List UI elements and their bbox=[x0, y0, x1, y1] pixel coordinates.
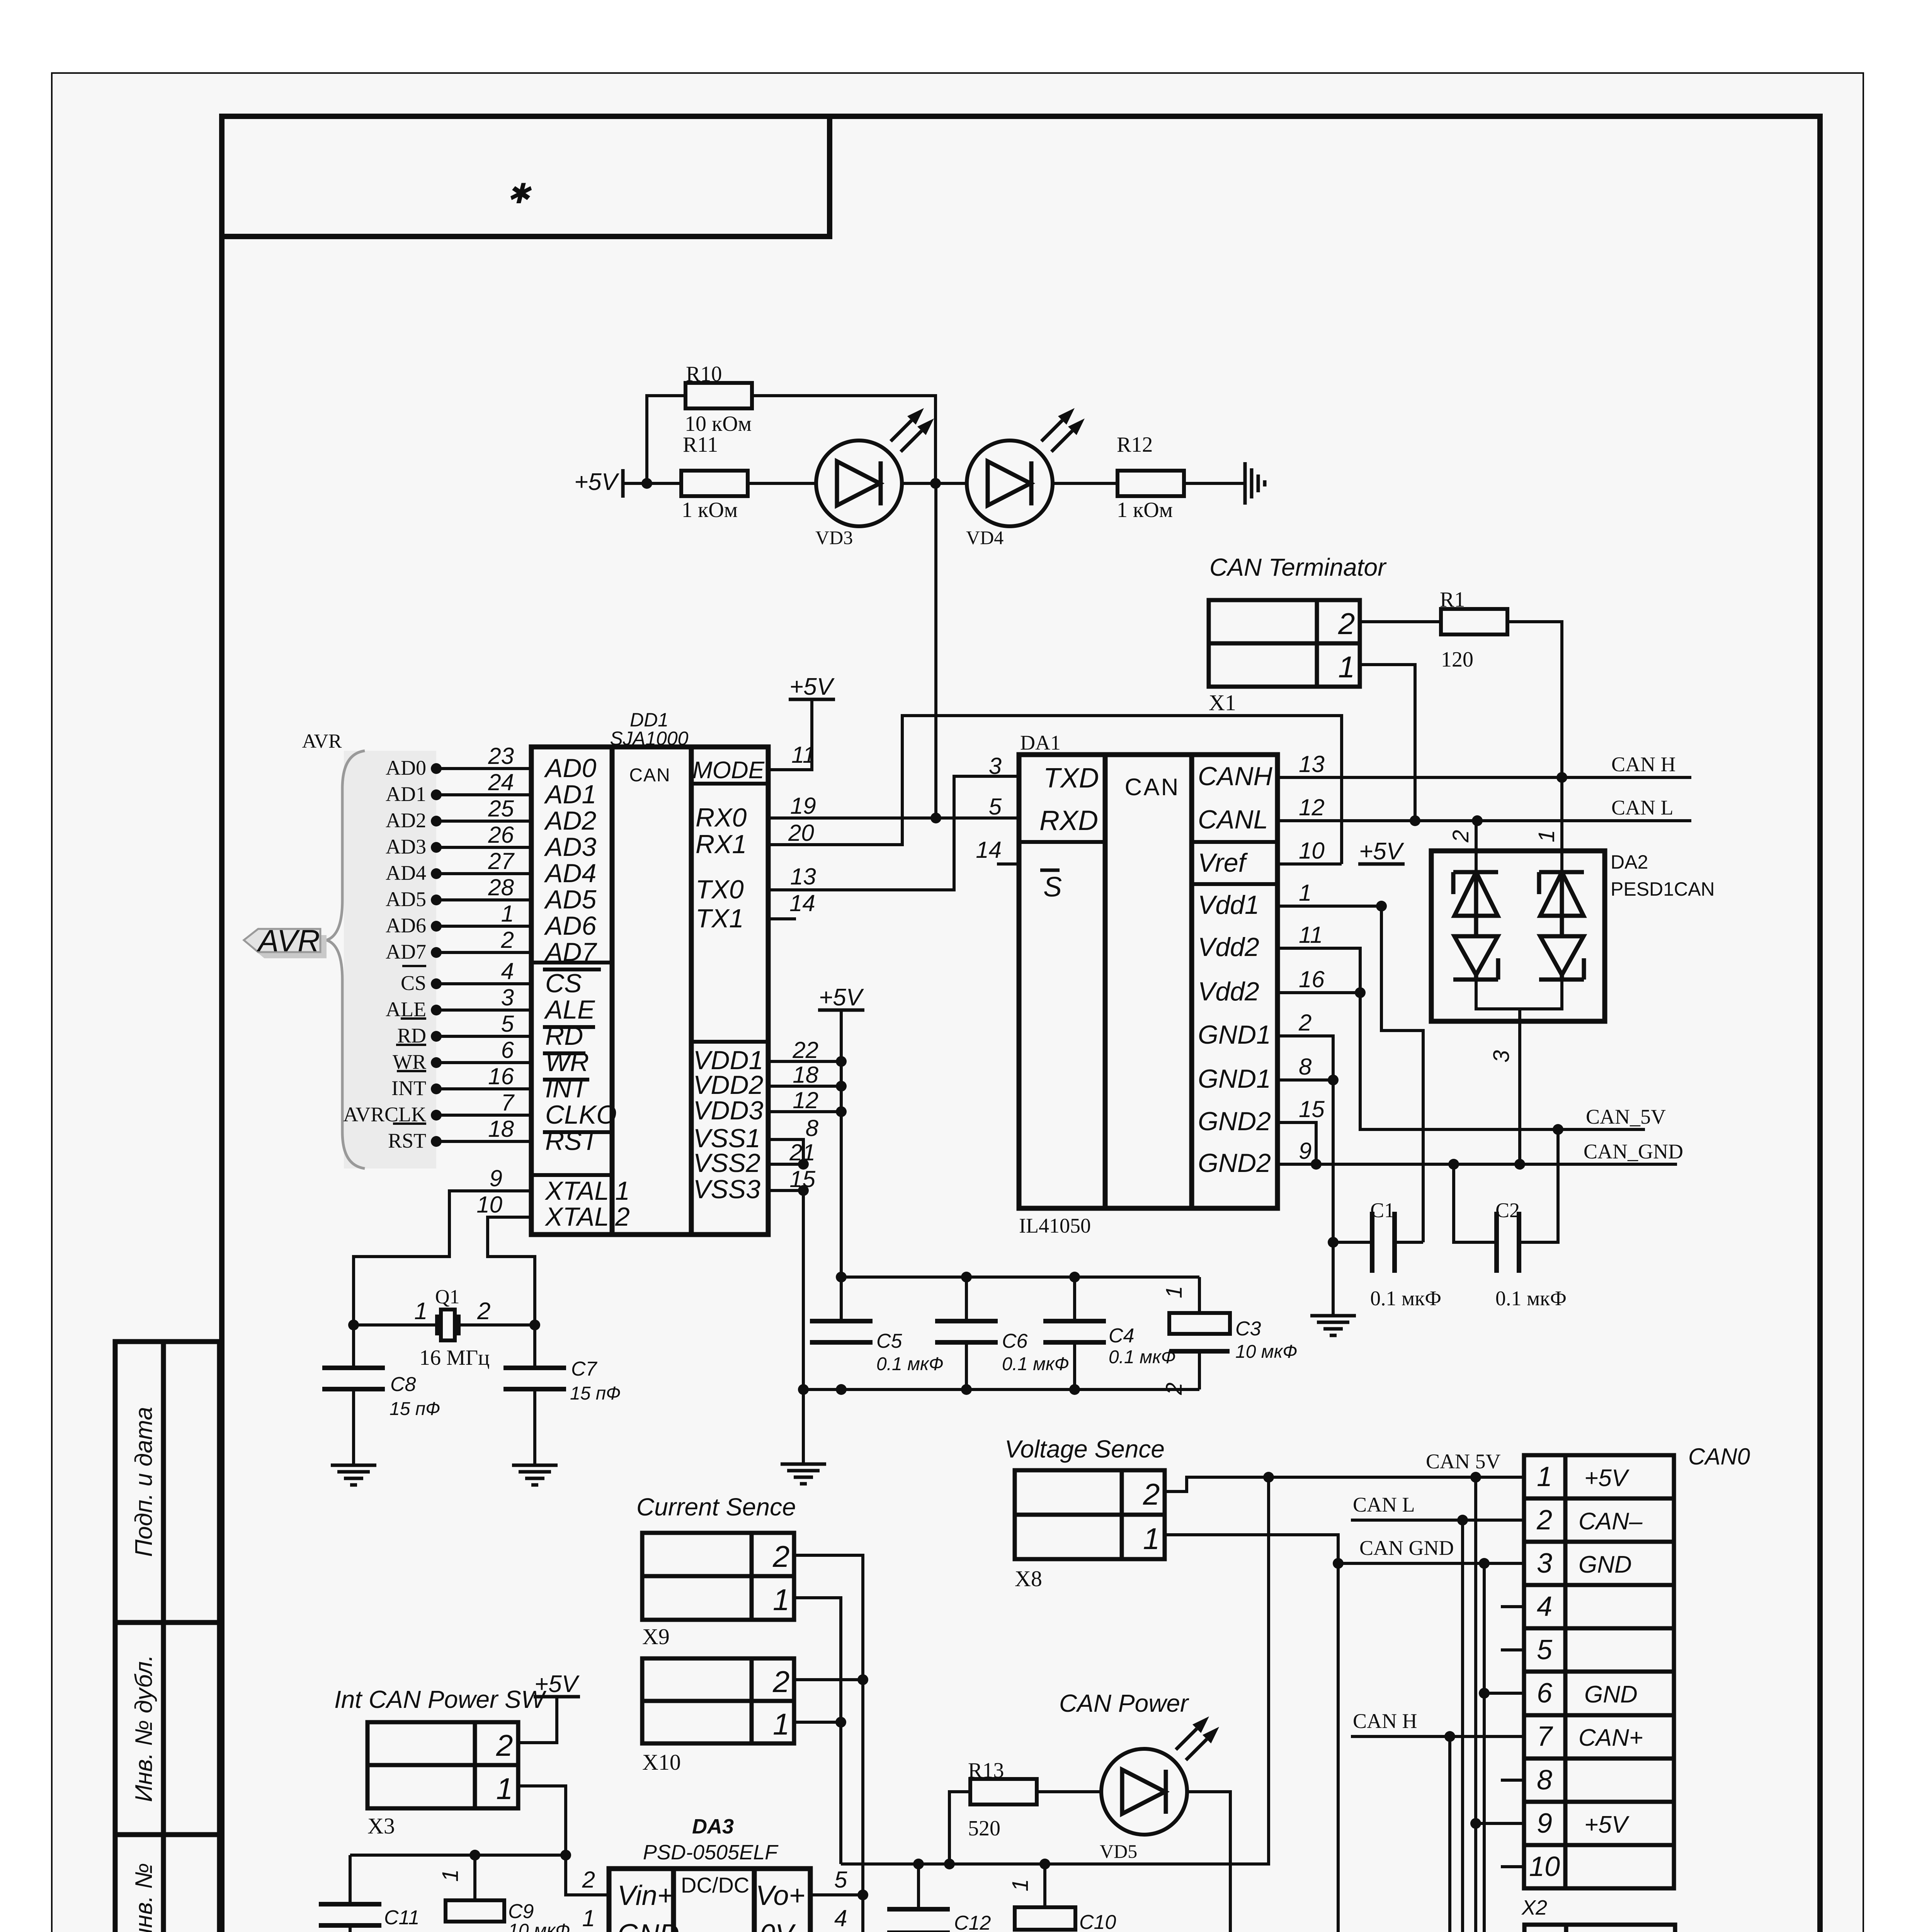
svg-text:2: 2 bbox=[772, 1539, 789, 1573]
wire Vdd1 to +5V bbox=[1277, 905, 1381, 908]
svg-text:CAN0: CAN0 bbox=[1688, 1444, 1750, 1469]
svg-text:1: 1 bbox=[1338, 650, 1355, 684]
svg-text:DA2: DA2 bbox=[1611, 851, 1648, 873]
stub S pin bbox=[997, 862, 1019, 866]
svg-text:AD2: AD2 bbox=[544, 806, 596, 835]
wire VSS rail down to ground bus bbox=[802, 1190, 805, 1464]
wire CANL to CAN_L line bbox=[1277, 819, 1691, 822]
wire VSS2 bbox=[768, 1163, 803, 1166]
wire +5V down to C1 bbox=[1381, 906, 1423, 1242]
svg-text:8: 8 bbox=[1537, 1765, 1552, 1796]
svg-text:1: 1 bbox=[773, 1707, 789, 1741]
wire VSS3 bbox=[768, 1189, 803, 1192]
AVR flag bbox=[250, 935, 327, 958]
wire X10 pin1 bbox=[794, 1721, 841, 1724]
resistor R12 bbox=[1118, 471, 1184, 496]
svg-text:AVR: AVR bbox=[257, 923, 320, 958]
wire X2 pin6 GND bbox=[1484, 1563, 1524, 1693]
wire CAN_GND down to rail bbox=[1337, 1563, 1340, 1932]
svg-text:10: 10 bbox=[1529, 1851, 1560, 1882]
svg-text:2: 2 bbox=[1338, 607, 1355, 641]
wire CAN_H to X2 pin7 bbox=[1351, 1735, 1524, 1738]
svg-text:RST: RST bbox=[545, 1126, 599, 1156]
wire CAN_GND branch to X4 pin3 and 6 bbox=[1484, 1693, 1524, 1932]
wire R13 riser bbox=[949, 1792, 970, 1864]
capacitor C10 polarized bbox=[1043, 1864, 1046, 1907]
svg-text:X1: X1 bbox=[1209, 690, 1236, 715]
wire X8 pin2 to CAN_5V bbox=[1165, 1477, 1524, 1492]
svg-text:TXD: TXD bbox=[1043, 763, 1099, 794]
svg-text:AD1: AD1 bbox=[386, 782, 426, 806]
svg-text:5: 5 bbox=[501, 1011, 514, 1037]
svg-text:2: 2 bbox=[615, 1202, 630, 1231]
capacitor C12 bbox=[917, 1864, 920, 1909]
wire AVRCLK to DD1 bbox=[436, 1114, 531, 1117]
svg-text:1 кОм: 1 кОм bbox=[1117, 498, 1173, 522]
svg-text:C6: C6 bbox=[1002, 1330, 1028, 1352]
wire AD0 to DD1 bbox=[436, 767, 531, 770]
connector X1 bbox=[1209, 600, 1360, 687]
svg-text:AD4: AD4 bbox=[544, 859, 596, 888]
wire MODE to +5V bbox=[768, 699, 812, 770]
wire RX0 to RXD bbox=[768, 816, 1019, 820]
wire Vin top bus bbox=[350, 1854, 566, 1857]
svg-text:AD3: AD3 bbox=[544, 832, 596, 862]
wire ALE to DD1 bbox=[436, 1009, 531, 1012]
svg-text:TX0: TX0 bbox=[696, 875, 744, 904]
svg-text:AD1: AD1 bbox=[544, 780, 596, 809]
capacitor C5 bbox=[810, 1319, 873, 1323]
svg-text:Vdd1: Vdd1 bbox=[1198, 890, 1259, 920]
wire CAN_GND to X2 pin3 bbox=[1338, 1562, 1524, 1565]
wire INT to DD1 bbox=[436, 1087, 531, 1090]
svg-text:R1: R1 bbox=[1440, 588, 1465, 612]
svg-text:12: 12 bbox=[793, 1087, 818, 1113]
svg-text:23: 23 bbox=[488, 743, 514, 769]
svg-text:CANL: CANL bbox=[1198, 805, 1268, 834]
wire Vo+ pin5 bbox=[810, 1893, 863, 1896]
svg-text:MODE: MODE bbox=[692, 757, 765, 784]
svg-text:C11: C11 bbox=[384, 1906, 420, 1929]
svg-text:VD3: VD3 bbox=[815, 527, 853, 548]
svg-text:20: 20 bbox=[788, 820, 814, 846]
svg-text:DC/DC: DC/DC bbox=[681, 1873, 749, 1897]
svg-text:120: 120 bbox=[1441, 648, 1473, 672]
svg-text:✱: ✱ bbox=[507, 179, 532, 209]
svg-text:Инв. № дубл.: Инв. № дубл. bbox=[131, 1655, 157, 1802]
connector X4 box bbox=[1524, 1925, 1675, 1932]
connector X10 bbox=[642, 1658, 794, 1743]
svg-text:AD5: AD5 bbox=[544, 885, 596, 914]
svg-text:10 мкФ: 10 мкФ bbox=[1235, 1342, 1297, 1362]
wire +5V rail down to cap bus bbox=[840, 1010, 843, 1321]
LED VD3 bbox=[816, 440, 902, 526]
svg-text:19: 19 bbox=[790, 793, 816, 819]
svg-text:4: 4 bbox=[834, 1905, 847, 1931]
svg-text:X9: X9 bbox=[642, 1624, 670, 1649]
connector X9 bbox=[642, 1533, 794, 1620]
svg-text:C5: C5 bbox=[876, 1330, 903, 1352]
svg-text:R13: R13 bbox=[968, 1759, 1004, 1782]
svg-text:0.1 мкФ: 0.1 мкФ bbox=[876, 1354, 944, 1374]
svg-text:PESD1CAN: PESD1CAN bbox=[1611, 878, 1715, 900]
svg-text:PSD-0505ELF: PSD-0505ELF bbox=[643, 1841, 779, 1864]
wire TXD stub bbox=[954, 775, 1019, 778]
wire R1 to CAN_H bbox=[1507, 622, 1562, 851]
svg-text:2: 2 bbox=[1298, 1010, 1311, 1036]
wire VSS cap bus bbox=[803, 1388, 1199, 1391]
svg-text:CAN Terminator: CAN Terminator bbox=[1209, 553, 1387, 581]
svg-text:3: 3 bbox=[1537, 1548, 1552, 1579]
LED VD4 bbox=[967, 440, 1053, 526]
svg-text:WR: WR bbox=[545, 1048, 589, 1077]
top stamp box bbox=[222, 116, 830, 236]
wire VDD3 bbox=[768, 1110, 841, 1113]
svg-text:26: 26 bbox=[488, 822, 514, 848]
svg-text:1: 1 bbox=[773, 1583, 789, 1617]
svg-text:VD4: VD4 bbox=[966, 527, 1004, 548]
capacitor C2 bbox=[1454, 1164, 1497, 1242]
svg-text:C1: C1 bbox=[1370, 1199, 1395, 1222]
wire WR to DD1 bbox=[436, 1061, 531, 1064]
wire Vo+ vertical to X7 pin1 bbox=[861, 1895, 864, 1932]
svg-text:2: 2 bbox=[1143, 1477, 1160, 1511]
wire X9 pin2 down bbox=[794, 1555, 863, 1895]
svg-text:4: 4 bbox=[1537, 1591, 1552, 1622]
wire VD5 to rail bbox=[1187, 1792, 1230, 1932]
svg-text:Vdd2: Vdd2 bbox=[1198, 977, 1259, 1006]
svg-text:9: 9 bbox=[490, 1165, 502, 1191]
svg-text:CAN GND: CAN GND bbox=[1359, 1536, 1454, 1560]
svg-text:28: 28 bbox=[488, 874, 514, 900]
wire CANH to CAN_H line bbox=[1277, 776, 1691, 779]
svg-text:2: 2 bbox=[772, 1665, 789, 1699]
wire RD to DD1 bbox=[436, 1035, 531, 1038]
svg-text:GND1: GND1 bbox=[1198, 1020, 1271, 1049]
svg-text:CAN–: CAN– bbox=[1579, 1508, 1643, 1535]
svg-text:Vin+: Vin+ bbox=[617, 1880, 674, 1911]
svg-text:CAN L: CAN L bbox=[1611, 796, 1674, 819]
svg-text:AD7: AD7 bbox=[544, 937, 597, 967]
wire R13 to VD5 bbox=[1037, 1790, 1101, 1793]
svg-text:0.1 мкФ: 0.1 мкФ bbox=[384, 1930, 451, 1932]
svg-text:ALE: ALE bbox=[544, 995, 595, 1024]
power +5V at X3 bbox=[534, 1695, 580, 1699]
svg-text:12: 12 bbox=[1299, 794, 1325, 820]
svg-text:C2: C2 bbox=[1495, 1199, 1520, 1222]
svg-text:1: 1 bbox=[1538, 1930, 1553, 1932]
power +5V at MODE bbox=[789, 698, 835, 701]
wire R10 branch up bbox=[647, 396, 687, 483]
svg-text:RD: RD bbox=[545, 1021, 583, 1051]
wire AD2 to DD1 bbox=[436, 820, 531, 823]
svg-text:AD3: AD3 bbox=[386, 835, 426, 858]
svg-text:AVR: AVR bbox=[302, 730, 342, 752]
svg-text:VSS3: VSS3 bbox=[693, 1175, 760, 1204]
drawing frame bbox=[222, 116, 1820, 1932]
AVR gray band bbox=[344, 751, 436, 1168]
svg-text:8: 8 bbox=[806, 1115, 819, 1141]
svg-text:0.1 мкФ: 0.1 мкФ bbox=[1109, 1347, 1176, 1367]
svg-text:Vo+: Vo+ bbox=[756, 1880, 805, 1911]
power +5V above VDD pins bbox=[818, 1009, 864, 1012]
svg-text:6: 6 bbox=[1537, 1678, 1553, 1709]
svg-text:8: 8 bbox=[1299, 1054, 1312, 1080]
svg-text:C12: C12 bbox=[954, 1912, 991, 1932]
wire Vdd2 net to CAN_5V bbox=[1277, 948, 1645, 1129]
svg-text:1: 1 bbox=[1143, 1522, 1160, 1556]
wire Vdd2 pin16 join bbox=[1277, 991, 1360, 994]
AVR brace bbox=[327, 751, 365, 1168]
wire AD5 to DD1 bbox=[436, 898, 531, 901]
svg-text:1: 1 bbox=[1299, 880, 1311, 906]
svg-text:VDD3: VDD3 bbox=[693, 1096, 764, 1125]
wire RX1 to Vref net bbox=[768, 716, 1342, 864]
resistor R13 bbox=[970, 1779, 1037, 1804]
svg-text:3: 3 bbox=[501, 985, 514, 1010]
wire CAN_L to X2 pin2 bbox=[1351, 1519, 1524, 1522]
svg-text:Подп. и дата: Подп. и дата bbox=[131, 1407, 157, 1557]
svg-text:2: 2 bbox=[582, 1867, 595, 1893]
svg-text:CAN Power: CAN Power bbox=[1059, 1689, 1189, 1717]
svg-text:CS: CS bbox=[545, 969, 582, 998]
svg-text:CAN_GND: CAN_GND bbox=[1584, 1140, 1683, 1163]
svg-text:1 кОм: 1 кОм bbox=[682, 498, 738, 522]
wire +5V to R11 bbox=[623, 482, 682, 485]
IC DA3 box bbox=[609, 1869, 810, 1932]
svg-text:+5V: +5V bbox=[1584, 1465, 1630, 1492]
svg-text:DA3: DA3 bbox=[692, 1815, 734, 1838]
connector X8 bbox=[1015, 1470, 1165, 1559]
svg-text:+5V: +5V bbox=[789, 673, 835, 700]
svg-text:3: 3 bbox=[1489, 1050, 1514, 1063]
IC DD1 box bbox=[531, 747, 768, 1235]
svg-text:0.1 мкФ: 0.1 мкФ bbox=[1495, 1287, 1567, 1310]
svg-text:TX1: TX1 bbox=[696, 904, 744, 933]
svg-text:INT: INT bbox=[545, 1074, 589, 1103]
svg-text:2: 2 bbox=[1162, 1383, 1187, 1395]
svg-text:24: 24 bbox=[488, 769, 514, 795]
capacitor C1 bbox=[1333, 1241, 1372, 1244]
svg-text:C9: C9 bbox=[508, 1900, 534, 1923]
svg-text:+5V: +5V bbox=[819, 984, 864, 1011]
svg-text:Взам. инв. №: Взам. инв. № bbox=[131, 1863, 157, 1932]
svg-text:2: 2 bbox=[501, 927, 514, 953]
svg-text:AD0: AD0 bbox=[544, 753, 596, 783]
wire XTAL1 pin 9 bbox=[354, 1191, 531, 1325]
capacitor C4 bbox=[1073, 1277, 1076, 1321]
svg-text:1: 1 bbox=[414, 1298, 427, 1325]
wire X9 pin1 down bbox=[794, 1598, 841, 1864]
connector X2 box bbox=[1524, 1455, 1674, 1888]
svg-text:13: 13 bbox=[790, 864, 816, 889]
power +5V at Vdd1 bbox=[1358, 862, 1405, 866]
svg-text:RX1: RX1 bbox=[696, 830, 747, 859]
ground for GND1 bbox=[1310, 1314, 1356, 1318]
svg-text:AD6: AD6 bbox=[386, 914, 426, 937]
svg-text:Q1: Q1 bbox=[435, 1286, 460, 1308]
wire TX0 to TXD bbox=[768, 776, 1019, 890]
svg-text:CAN H: CAN H bbox=[1611, 753, 1676, 776]
TVS pair left bbox=[1453, 870, 1498, 874]
wire X10 pin2 bbox=[794, 1678, 863, 1681]
svg-text:GND2: GND2 bbox=[1198, 1107, 1271, 1136]
wire X2 pin9 +5V bbox=[1476, 1477, 1524, 1823]
svg-text:0.1 мкФ: 0.1 мкФ bbox=[1002, 1354, 1069, 1374]
svg-text:10: 10 bbox=[476, 1192, 502, 1218]
wire AD7 to DD1 bbox=[436, 951, 531, 954]
wire GND2 to CAN_GND line bbox=[1277, 1163, 1677, 1166]
wire +5V cap bus bbox=[841, 1276, 1199, 1279]
svg-text:6: 6 bbox=[501, 1037, 514, 1063]
svg-text:VDD2: VDD2 bbox=[693, 1070, 763, 1100]
IC DA1 box bbox=[1019, 755, 1277, 1208]
svg-text:CAN_5V: CAN_5V bbox=[1586, 1105, 1666, 1128]
svg-text:7: 7 bbox=[501, 1090, 515, 1116]
svg-text:+5V: +5V bbox=[574, 469, 620, 495]
svg-text:R11: R11 bbox=[683, 433, 718, 457]
svg-text:X8: X8 bbox=[1015, 1566, 1042, 1591]
svg-text:AD2: AD2 bbox=[386, 809, 426, 832]
svg-text:CS: CS bbox=[401, 971, 426, 995]
left attribute column box bbox=[115, 1342, 219, 1932]
wire VSS1 bbox=[768, 1139, 803, 1164]
wire AD6 to DD1 bbox=[436, 925, 531, 928]
wire GND1 net down bbox=[1277, 1036, 1333, 1316]
svg-text:1: 1 bbox=[615, 1176, 630, 1206]
svg-text:16: 16 bbox=[1299, 966, 1325, 992]
svg-text:Current Sence: Current Sence bbox=[636, 1493, 796, 1521]
svg-text:RXD: RXD bbox=[1039, 805, 1098, 836]
svg-text:XTAL: XTAL bbox=[544, 1202, 609, 1231]
svg-text:16: 16 bbox=[488, 1063, 514, 1089]
svg-text:14: 14 bbox=[976, 837, 1002, 863]
svg-text:Int CAN Power SW: Int CAN Power SW bbox=[334, 1685, 547, 1713]
svg-text:10 мкФ: 10 мкФ bbox=[508, 1920, 570, 1932]
svg-text:5: 5 bbox=[989, 794, 1002, 820]
svg-text:X2: X2 bbox=[1521, 1896, 1547, 1919]
wire CAN_5V down to X4 pins bbox=[1476, 1823, 1524, 1932]
svg-text:CLKO: CLKO bbox=[545, 1100, 617, 1129]
wire R12 to chassis ground bbox=[1184, 482, 1245, 485]
wire X3 pin2 to +5V bbox=[518, 1697, 557, 1743]
wire R10 to junction bbox=[752, 396, 936, 483]
svg-text:11: 11 bbox=[1299, 922, 1323, 948]
svg-text:GND: GND bbox=[617, 1919, 679, 1932]
capacitor C7 bbox=[533, 1325, 536, 1368]
wire VD4 to R12 bbox=[1053, 482, 1118, 485]
capacitor C6 bbox=[965, 1277, 968, 1321]
svg-text:C3: C3 bbox=[1235, 1318, 1261, 1340]
svg-text:1: 1 bbox=[1162, 1286, 1187, 1298]
svg-text:RST: RST bbox=[388, 1129, 426, 1152]
svg-text:18: 18 bbox=[488, 1116, 514, 1142]
svg-text:GND: GND bbox=[1584, 1681, 1638, 1708]
svg-text:1: 1 bbox=[438, 1869, 463, 1882]
wire GND1 pin8 bbox=[1277, 1078, 1333, 1082]
svg-text:13: 13 bbox=[1299, 751, 1325, 777]
LED VD5 bbox=[1101, 1749, 1187, 1835]
wire XTAL2 pin 10 bbox=[488, 1217, 535, 1325]
svg-text:R10: R10 bbox=[686, 362, 722, 386]
svg-text:CAN: CAN bbox=[629, 765, 670, 786]
svg-text:14: 14 bbox=[789, 890, 815, 916]
capacitor C8 bbox=[352, 1325, 355, 1368]
wire X8 pin1 to CAN_GND bbox=[1165, 1535, 1338, 1563]
svg-text:AD4: AD4 bbox=[386, 861, 426, 884]
svg-text:IL41050: IL41050 bbox=[1019, 1214, 1091, 1237]
svg-text:+5V: +5V bbox=[1584, 1811, 1630, 1838]
wire R11 to VD3 bbox=[747, 482, 816, 485]
wire DA2 pin1 from CAN_H bbox=[1560, 777, 1563, 872]
svg-text:7: 7 bbox=[1537, 1721, 1553, 1752]
TVS pair right bbox=[1539, 870, 1584, 874]
wire current sense bus to CAN_5V bbox=[841, 1477, 1269, 1864]
svg-text:2: 2 bbox=[1448, 830, 1473, 843]
resistor R10 bbox=[685, 383, 752, 408]
svg-text:10 кОм: 10 кОм bbox=[685, 412, 752, 436]
capacitor C11 bbox=[349, 1855, 352, 1904]
svg-text:0V: 0V bbox=[760, 1919, 796, 1932]
svg-text:XTAL: XTAL bbox=[544, 1176, 609, 1206]
svg-text:1: 1 bbox=[1537, 1461, 1552, 1492]
wire Vref riser bbox=[1277, 862, 1342, 866]
wire CAN_H down to X4 pin7 bbox=[1450, 1736, 1524, 1932]
svg-text:25: 25 bbox=[488, 796, 514, 821]
svg-text:9: 9 bbox=[1537, 1808, 1552, 1839]
svg-text:10: 10 bbox=[1299, 838, 1325, 864]
svg-text:15: 15 bbox=[1299, 1096, 1325, 1122]
crystal Q1 bbox=[354, 1323, 437, 1327]
svg-text:Vdd2: Vdd2 bbox=[1198, 932, 1259, 962]
wire GND2 pin15 down bbox=[1277, 1122, 1316, 1164]
svg-text:CAN+: CAN+ bbox=[1579, 1725, 1643, 1751]
svg-text:+5V: +5V bbox=[1359, 838, 1405, 865]
svg-text:2: 2 bbox=[477, 1298, 490, 1325]
svg-text:1: 1 bbox=[1008, 1879, 1033, 1891]
svg-text:520: 520 bbox=[968, 1816, 1000, 1840]
svg-text:VD5: VD5 bbox=[1100, 1840, 1137, 1862]
svg-text:18: 18 bbox=[793, 1062, 818, 1088]
wire VDD2 bbox=[768, 1085, 841, 1088]
wire VD3 to VD4 with junction bbox=[902, 482, 967, 485]
svg-text:C4: C4 bbox=[1109, 1325, 1134, 1347]
wire X1 pin2 to R1 bbox=[1360, 620, 1442, 623]
svg-text:5: 5 bbox=[834, 1867, 847, 1893]
svg-text:GND2: GND2 bbox=[1198, 1148, 1271, 1178]
ground for C8 bbox=[331, 1464, 376, 1467]
svg-text:15 пФ: 15 пФ bbox=[570, 1383, 621, 1404]
svg-text:GND1: GND1 bbox=[1198, 1064, 1271, 1094]
connector X3 bbox=[367, 1722, 518, 1808]
svg-text:SJA1000: SJA1000 bbox=[610, 728, 689, 749]
svg-text:C10: C10 bbox=[1079, 1911, 1116, 1932]
svg-text:4: 4 bbox=[501, 958, 514, 984]
svg-text:Voltage Sence: Voltage Sence bbox=[1005, 1435, 1165, 1463]
chassis ground bbox=[1243, 462, 1247, 505]
stub TX1 bbox=[768, 917, 796, 920]
svg-text:16 МГц: 16 МГц bbox=[419, 1346, 490, 1370]
svg-text:CAN: CAN bbox=[1125, 774, 1180, 801]
svg-text:INT: INT bbox=[391, 1077, 426, 1100]
wire RST to DD1 bbox=[436, 1140, 531, 1143]
ground for C7 bbox=[512, 1464, 558, 1467]
svg-text:27: 27 bbox=[488, 848, 515, 874]
svg-text:0.1 мкФ: 0.1 мкФ bbox=[1370, 1287, 1441, 1310]
wire junction down to RX0 line bbox=[934, 483, 937, 818]
wire DA2 pin2 from CAN_L bbox=[1475, 821, 1478, 872]
svg-text:CANH: CANH bbox=[1198, 762, 1273, 791]
